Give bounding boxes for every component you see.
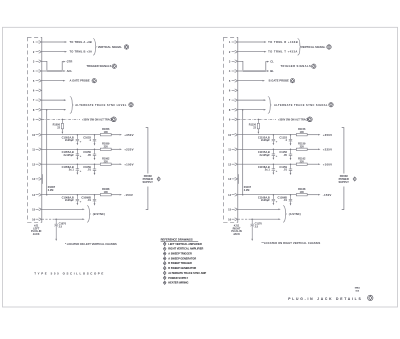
svg-text:11: 11 — [32, 147, 35, 151]
svg-text:VERTICAL SIGNAL: VERTICAL SIGNAL — [98, 45, 123, 49]
svg-text:220: 220 — [104, 145, 109, 148]
svg-text:RIGHT VERTICAL AMPLIFIER: RIGHT VERTICAL AMPLIFIER — [168, 248, 203, 251]
svg-text:ALTERNATE TRACE SYNC LEVEL: ALTERNATE TRACE SYNC LEVEL — [75, 103, 127, 107]
pin 16 of J11 — [232, 218, 238, 221]
svg-text:TO TRML B +3A: TO TRML B +3A — [70, 50, 93, 54]
svg-text:+350V SW ON ALT TRACE: +350V SW ON ALT TRACE — [278, 118, 309, 121]
svg-text:+: + — [276, 169, 278, 173]
capacitor C1155A,B — [272, 149, 275, 158]
pin 8 of J1 — [36, 108, 42, 111]
svg-text:PLUG-IN JACK DETAILS: PLUG-IN JACK DETAILS — [288, 297, 362, 301]
pin 11 of J1 — [36, 148, 42, 151]
wire +100V row — [42, 163, 101, 165]
svg-text:12: 12 — [228, 162, 231, 166]
svg-text:16: 16 — [32, 217, 35, 221]
svg-text:10: 10 — [32, 133, 35, 137]
svg-text:100: 100 — [104, 191, 109, 194]
svg-text:-150V: -150V — [124, 193, 133, 197]
svg-text:ALTERNATE TRACE SYNC AMP: ALTERNATE TRACE SYNC AMP — [168, 272, 206, 275]
flag gate — [92, 79, 96, 83]
svg-text:15: 15 — [32, 207, 35, 211]
wire pin1 J11 vertical signal A — [238, 41, 265, 43]
shielded cable pins 3-4 J11 — [243, 69, 266, 71]
svg-text:220: 220 — [300, 160, 305, 163]
svg-text:TO TRML R +433B: TO TRML R +433B — [268, 40, 298, 44]
wire pin4 J11 — [238, 70, 243, 72]
wire -150V row — [238, 194, 296, 196]
svg-text:5: 5 — [33, 79, 35, 83]
wire pin15 sync — [42, 208, 83, 210]
svg-text:+100V: +100V — [124, 162, 133, 166]
svg-text:100: 100 — [104, 131, 109, 134]
svg-text:100: 100 — [300, 131, 305, 134]
brace alt trace sync — [268, 97, 272, 114]
svg-text:2x20µF: 2x20µF — [65, 198, 74, 202]
svg-text:.01: .01 — [87, 198, 91, 202]
svg-text:+225V: +225V — [124, 147, 133, 151]
brace alt trace sync — [70, 97, 74, 114]
resistor R1156 — [296, 134, 307, 136]
flag power supply — [157, 177, 160, 181]
bus bracket FROM POWER SUPPLY — [146, 128, 148, 210]
wire +225V row — [238, 148, 296, 150]
wire -150V row — [42, 194, 101, 196]
svg-text:POWER SUPPLY: POWER SUPPLY — [168, 277, 188, 280]
svg-text:4: 4 — [229, 69, 231, 73]
svg-text:2.5: 2.5 — [255, 225, 259, 228]
wire +350V row — [42, 134, 101, 136]
svg-text:A SWEEP TRIGGER: A SWEEP TRIGGER — [168, 253, 192, 256]
svg-text:+: + — [276, 154, 278, 158]
svg-text:3: 3 — [33, 59, 35, 63]
svg-text:+: + — [80, 139, 82, 143]
flag +350V SW — [111, 117, 116, 122]
brace sync pair — [87, 206, 91, 223]
flag ref 4 — [163, 257, 166, 261]
capacitor C1059 — [93, 164, 96, 173]
resistor R1159 — [296, 148, 307, 150]
shielded cable pins 3-4 J1 — [47, 69, 62, 71]
svg-text:JACK: JACK — [233, 233, 240, 236]
pin 12 of J11 — [232, 163, 238, 166]
arrow +100V — [120, 163, 122, 165]
svg-text:+: + — [276, 199, 278, 203]
arrow trigger lower — [63, 70, 65, 72]
svg-text:.01: .01 — [283, 198, 287, 202]
arrow +100V — [318, 163, 320, 165]
svg-text:6: 6 — [229, 89, 231, 93]
pin 2 of J11 — [232, 50, 238, 53]
pin 13 of J1 — [36, 177, 42, 180]
svg-text:+: + — [80, 199, 82, 203]
svg-text:220: 220 — [300, 145, 305, 148]
resistor R1062 — [100, 163, 111, 165]
svg-text:GTR: GTR — [67, 60, 73, 64]
svg-text:(B SYNC): (B SYNC) — [93, 212, 105, 216]
svg-text:15: 15 — [228, 207, 231, 211]
wire pin2 J1 vertical signal B — [42, 51, 65, 53]
svg-text:**LOCATED ON RIGHT VERTICAL CH: **LOCATED ON RIGHT VERTICAL CHASSIS — [262, 241, 321, 245]
wire pin2 J11 vertical signal B — [238, 51, 265, 53]
flag gate — [290, 79, 294, 83]
arrow +350V — [318, 134, 320, 136]
svg-text:B SWEEP TRIGGER: B SWEEP TRIGGER — [168, 262, 192, 265]
svg-text:.05: .05 — [87, 153, 91, 157]
svg-text:.05: .05 — [283, 153, 287, 157]
capacitor C1053 — [93, 135, 96, 144]
svg-text:555: 555 — [355, 291, 359, 293]
flag alt trace sync — [129, 103, 133, 107]
flag ref 8 — [163, 276, 166, 280]
wire pin16 sync (dashed) — [42, 218, 55, 220]
flag trigger signals — [312, 64, 316, 68]
flag power supply — [353, 177, 356, 181]
flag ref 3 — [163, 252, 166, 256]
svg-text:2x20µF: 2x20µF — [261, 138, 270, 142]
capacitor C1052A,B — [76, 135, 79, 144]
pin 5 of J1 — [36, 79, 42, 82]
svg-text:6: 6 — [33, 89, 35, 93]
svg-text:2x.1: 2x.1 — [69, 168, 75, 172]
svg-text:LEFT VERTICAL AMPLIFIER: LEFT VERTICAL AMPLIFIER — [168, 243, 202, 246]
svg-text:9: 9 — [229, 118, 231, 122]
flag ref 5 — [163, 262, 166, 266]
svg-text:BL: BL — [270, 69, 274, 73]
wire +100V row — [238, 163, 296, 165]
wire trigger up elbow J1 — [62, 62, 63, 71]
pin 7 of J1 — [36, 99, 42, 102]
svg-text:.1: .1 — [285, 138, 288, 142]
pin 7 of J11 — [232, 99, 238, 102]
flag ref 9 — [163, 281, 166, 285]
capacitor C1056 — [93, 149, 96, 158]
wire +225V row — [42, 148, 101, 150]
junction pin16 — [251, 218, 253, 220]
svg-text:2.2M: 2.2M — [48, 189, 54, 192]
wire trigger lower — [266, 70, 267, 72]
arrow +225V — [318, 148, 320, 150]
resistor R1068 — [100, 194, 111, 196]
resistor R1162 — [296, 163, 307, 165]
pin 2 of J1 — [36, 50, 42, 53]
connector J11 bus edge — [237, 37, 239, 222]
svg-text:+: + — [80, 169, 82, 173]
svg-text:SUPPLY: SUPPLY — [338, 180, 349, 184]
svg-text:22: 22 — [253, 127, 256, 130]
svg-text:2: 2 — [33, 50, 35, 54]
svg-text:2x.1: 2x.1 — [265, 168, 271, 172]
svg-text:2x20µF: 2x20µF — [65, 138, 74, 142]
pin 4 of J11 — [232, 70, 238, 73]
pin 10 of J1 — [36, 133, 42, 136]
svg-text:4: 4 — [33, 69, 35, 73]
svg-text:8: 8 — [229, 108, 231, 112]
capacitor C1152A,B — [272, 135, 275, 144]
resistor R1150 — [257, 119, 259, 123]
pin 12 of J1 — [36, 163, 42, 166]
svg-text:TO TRML T +433A: TO TRML T +433A — [268, 50, 298, 54]
svg-text:JACK: JACK — [33, 233, 40, 236]
svg-text:3: 3 — [229, 59, 231, 63]
svg-text:10: 10 — [228, 133, 231, 137]
wire trigger up elbow J11 — [266, 62, 267, 71]
wire pin8 junction down to -150V row — [242, 110, 244, 195]
flag ref 7 — [163, 271, 166, 275]
pin 3 of J1 — [36, 60, 42, 63]
pin 13 of J11 — [232, 177, 238, 180]
svg-text:13: 13 — [32, 177, 35, 181]
wire pin8 J11 — [238, 109, 264, 111]
svg-text:+350V: +350V — [124, 133, 133, 137]
svg-text:100: 100 — [300, 191, 305, 194]
svg-text:8: 8 — [33, 108, 35, 112]
svg-text:ACL: ACL — [67, 69, 73, 73]
svg-text:.01: .01 — [87, 168, 91, 172]
svg-text:REFERENCE DRAWINGS: REFERENCE DRAWINGS — [161, 238, 193, 242]
wire pin9 +350V SW (dash-dot) — [42, 118, 80, 120]
wire pin15 sync — [238, 208, 279, 210]
arrow +225V — [120, 148, 122, 150]
wire pin5 J1 gate — [42, 80, 64, 82]
title flag — [368, 295, 373, 300]
svg-text:16: 16 — [228, 217, 231, 221]
svg-text:TRIGGER SIGNALS: TRIGGER SIGNALS — [281, 64, 312, 68]
svg-text:7: 7 — [229, 98, 231, 102]
pin 15 of J11 — [232, 208, 238, 211]
svg-text:B GATE PROBE: B GATE PROBE — [269, 79, 289, 83]
pin 3 of J11 — [232, 60, 238, 63]
svg-text:CL: CL — [270, 60, 274, 64]
flag trigger signals — [112, 64, 116, 68]
arrow trigger upper — [267, 61, 269, 63]
svg-text:* LOCATED ON LEFT VERTICAL CHA: * LOCATED ON LEFT VERTICAL CHASSIS — [65, 242, 117, 246]
connector J1 plug-in jack outline — [28, 37, 42, 222]
svg-text:2x125µF: 2x125µF — [64, 153, 75, 157]
flag vertical signal — [124, 45, 128, 49]
flag vertical signal — [327, 45, 331, 49]
wire pin7 J11 — [238, 99, 264, 101]
pin 8 of J11 — [232, 108, 238, 111]
svg-text:TYPE 555 OSCILLOSCOPE: TYPE 555 OSCILLOSCOPE — [34, 271, 105, 275]
pin 6 of J11 — [232, 89, 238, 92]
pin 14 of J1 — [36, 193, 42, 196]
svg-text:HEATER WIRING: HEATER WIRING — [168, 282, 188, 285]
svg-text:ALTERNATE TRACE SYNC SIGNAL: ALTERNATE TRACE SYNC SIGNAL — [274, 103, 328, 107]
wire pin9 +350V SW (dash-dot) — [238, 118, 276, 120]
flag ref 6 — [163, 266, 166, 270]
svg-text:+: + — [276, 139, 278, 143]
flag alt trace sync — [329, 103, 333, 107]
svg-text:(A SYNC): (A SYNC) — [289, 212, 301, 216]
svg-text:.1: .1 — [89, 138, 92, 142]
pin 1 of J1 — [36, 41, 42, 44]
wire pin4 J1 — [42, 70, 47, 72]
wire pin3 J1 trigger elbow — [42, 61, 47, 70]
pin 9 of J11 — [232, 118, 238, 121]
svg-text:14: 14 — [228, 193, 231, 197]
svg-text:5: 5 — [229, 79, 231, 83]
svg-text:14: 14 — [32, 193, 35, 197]
svg-text:-150V: -150V — [323, 193, 332, 197]
svg-text:MBA: MBA — [355, 287, 360, 290]
svg-text:+100V: +100V — [323, 162, 332, 166]
svg-text:SUPPLY: SUPPLY — [142, 180, 153, 184]
svg-text:2.2M: 2.2M — [244, 189, 250, 192]
capacitor C1069B — [93, 195, 96, 204]
resistor R1059 — [100, 148, 111, 150]
capacitor C1058A,B — [76, 164, 79, 173]
svg-text:VERTICAL SIGNAL: VERTICAL SIGNAL — [301, 45, 326, 49]
capacitor C1153 — [289, 135, 292, 144]
svg-text:11: 11 — [228, 147, 231, 151]
svg-text:.01: .01 — [283, 168, 287, 172]
junction pin8 — [46, 109, 48, 111]
capacitor C1170 — [251, 219, 253, 224]
svg-text:2.5: 2.5 — [59, 225, 63, 228]
arrow -150V — [120, 194, 122, 196]
connector J11 plug-in jack outline — [224, 37, 238, 222]
flag ref 1 — [163, 242, 166, 246]
wire pin7 J1 — [42, 99, 64, 101]
brace vertical signal pair — [298, 39, 302, 56]
pin 1 of J11 — [232, 41, 238, 44]
capacitor C1168A,B — [272, 195, 275, 204]
capacitor C1068A,B — [76, 195, 79, 204]
svg-text:2: 2 — [229, 50, 231, 54]
svg-text:B SWEEP GENERATOR: B SWEEP GENERATOR — [168, 267, 196, 270]
svg-text:TO TRML A +3B: TO TRML A +3B — [70, 40, 92, 44]
pin 9 of J1 — [36, 118, 42, 121]
pin 4 of J1 — [36, 70, 42, 73]
arrow -150V — [318, 194, 320, 196]
svg-text:2x125µF: 2x125µF — [260, 153, 271, 157]
resistor R1168 — [296, 194, 307, 196]
pin 15 of J1 — [36, 208, 42, 211]
svg-text:+350V: +350V — [323, 133, 332, 137]
brace vertical signal pair — [93, 39, 97, 56]
arrow +350V — [120, 134, 122, 136]
junction pin16 — [55, 218, 57, 220]
flag +350V SW — [307, 117, 312, 122]
pin 10 of J11 — [232, 133, 238, 136]
arrow trigger upper — [63, 61, 65, 63]
flag ref 2 — [163, 247, 166, 251]
wire pin3 J11 trigger elbow — [238, 61, 243, 70]
pin 11 of J11 — [232, 148, 238, 151]
capacitor C1158A,B — [272, 164, 275, 173]
svg-text:+350V SW ON ALT TRACE: +350V SW ON ALT TRACE — [82, 118, 113, 121]
svg-text:22: 22 — [57, 127, 60, 130]
svg-text:12: 12 — [32, 162, 35, 166]
capacitor C1070 — [55, 219, 57, 224]
capacitor C1169B — [289, 195, 292, 204]
wire +350V row — [238, 134, 296, 136]
pin 14 of J11 — [232, 193, 238, 196]
wire pin5 J11 gate — [238, 80, 263, 82]
wire pin13 stub — [237, 174, 239, 184]
wire pin16 sync (dashed) — [238, 218, 251, 220]
svg-text:220: 220 — [104, 160, 109, 163]
pin 6 of J1 — [36, 89, 42, 92]
junction pin8 — [242, 109, 244, 111]
svg-text:TRIGGER SIGNALS: TRIGGER SIGNALS — [87, 64, 112, 68]
capacitor C1156 — [289, 149, 292, 158]
svg-text:7: 7 — [33, 98, 35, 102]
pin 5 of J11 — [232, 79, 238, 82]
connector J1 bus edge — [41, 37, 43, 222]
brace sync pair — [283, 206, 287, 223]
svg-text:2x20µF: 2x20µF — [261, 198, 270, 202]
wire pin8 junction down to -150V row — [46, 110, 48, 195]
svg-text:1: 1 — [33, 40, 35, 44]
wire pin1 J1 vertical signal A — [42, 41, 65, 43]
pin 16 of J1 — [36, 218, 42, 221]
svg-text:A SWEEP GENERATOR: A SWEEP GENERATOR — [168, 257, 196, 260]
resistor R1050 — [61, 119, 63, 123]
bus bracket FROM POWER SUPPLY — [342, 128, 344, 210]
resistor R1056 — [100, 134, 111, 136]
svg-text:+225V: +225V — [323, 147, 332, 151]
arrow trigger lower — [267, 70, 269, 72]
wire pin8 J1 — [42, 109, 64, 111]
svg-text:1: 1 — [229, 40, 231, 44]
svg-text:13: 13 — [228, 177, 231, 181]
svg-text:+: + — [80, 154, 82, 158]
wire pin13 stub — [41, 174, 43, 184]
svg-text:9: 9 — [33, 118, 35, 122]
capacitor C1159 — [289, 164, 292, 173]
capacitor C1055A,B — [76, 149, 79, 158]
wire trigger lower — [62, 70, 63, 72]
svg-text:A GATE PROBE: A GATE PROBE — [70, 79, 90, 83]
